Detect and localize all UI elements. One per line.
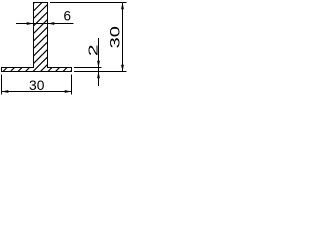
- arrowhead pointing down at flange bottom level: [121, 65, 124, 72]
- arrowhead pointing left at stem right edge: [48, 22, 55, 25]
- dimension line for flange width 30: [2, 91, 72, 93]
- svg-text:30: 30: [29, 78, 45, 93]
- dimension line for flange thickness 2: [98, 38, 100, 86]
- extension line from stem top edge: [50, 2, 127, 4]
- arrowhead pointing down at flange top: [97, 61, 100, 68]
- svg-text:2: 2: [85, 44, 100, 56]
- dimension line for total height 30: [122, 3, 124, 72]
- section hatching of T-profile: [0, 0, 142, 107]
- T-section outline (stem and flange): [2, 3, 72, 72]
- arrowhead pointing right at flange right edge: [65, 90, 72, 93]
- arrowhead pointing up at flange bottom: [97, 72, 100, 79]
- dimension line for stem width 6: [16, 23, 74, 25]
- svg-text:6: 6: [63, 9, 71, 24]
- arrowhead pointing left at flange left edge: [2, 90, 9, 93]
- left extension line of bottom width dimension: [1, 75, 3, 95]
- extension line from flange bottom edge: [74, 71, 127, 73]
- arrowhead pointing up at top: [121, 3, 124, 10]
- extension line from flange top edge: [74, 67, 102, 69]
- svg-text:30: 30: [107, 26, 123, 48]
- arrowhead pointing right at stem left edge: [27, 22, 34, 25]
- right extension line of bottom width dimension: [71, 75, 73, 95]
